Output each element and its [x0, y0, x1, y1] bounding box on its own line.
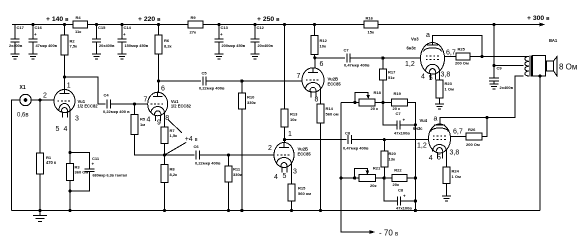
svg-text:R18: R18 — [374, 90, 382, 95]
resistor R24 1 Ом — [443, 167, 461, 196]
svg-text:C14: C14 — [124, 25, 132, 30]
wire R22 right to ground line — [407, 177, 415, 179]
svg-text:5: 5 — [437, 155, 441, 162]
svg-text:1 Ом: 1 Ом — [452, 174, 461, 179]
svg-text:1/2 ECC82: 1/2 ECC82 — [171, 104, 192, 109]
wire R26 to anode wire — [482, 118, 487, 137]
wire V2b cathode to R15 — [291, 164, 293, 185]
wire R18 to R19 — [375, 101, 392, 103]
capacitor C6 0,22мкр 400в — [194, 144, 221, 166]
svg-text:20 к: 20 к — [371, 106, 379, 111]
tube V1a Vu1 1/2 ECC82 — [54, 90, 98, 118]
svg-text:a: a — [426, 32, 430, 39]
wire V1a anode to node — [64, 77, 66, 89]
svg-text:R13: R13 — [290, 112, 298, 117]
svg-text:680мкр 6,3в тантал: 680мкр 6,3в тантал — [93, 174, 128, 178]
wire C6 to V2b grid — [200, 154, 275, 156]
svg-text:3: 3 — [75, 116, 79, 123]
svg-text:R11: R11 — [233, 167, 241, 172]
tube V2a Vu2В ЕСС85 — [302, 68, 341, 98]
node secondary bottom — [538, 74, 541, 77]
svg-text:R8: R8 — [170, 167, 176, 172]
svg-text:R17: R17 — [388, 70, 396, 75]
svg-text:C11: C11 — [92, 156, 100, 161]
capacitor C17 2х400в — [9, 25, 25, 60]
svg-text:5: 5 — [429, 75, 433, 82]
svg-text:+4 в: +4 в — [185, 136, 198, 143]
node R18 wiper tap — [353, 101, 356, 104]
resistor R8 8,2к — [161, 155, 177, 211]
svg-text:C6: C6 — [194, 144, 200, 149]
wire anode to tube top — [284, 140, 286, 142]
svg-text:+ 140 в: + 140 в — [46, 16, 69, 23]
tube V3 Vu3 6н3с — [407, 37, 445, 80]
svg-text:+: + — [34, 32, 37, 37]
node splitter cathode — [163, 153, 166, 156]
potentiometer R18 20 к — [355, 90, 382, 111]
svg-text:1м: 1м — [140, 122, 145, 127]
wire C7 to V3 grid — [350, 57, 421, 59]
wire cathode out to C6 — [165, 154, 195, 156]
wire anode junction to transformer — [482, 55, 528, 57]
wire V4 cathode — [446, 151, 448, 167]
resistor R3 360 Ом — [67, 153, 89, 211]
svg-text:330к: 330к — [233, 172, 242, 177]
resistor R10 330к — [238, 81, 255, 211]
svg-text:R5: R5 — [140, 117, 146, 122]
wire bottom ground bus — [11, 210, 540, 212]
tube V1b Vu1 1/2 ECC82 — [148, 92, 192, 121]
wire secondary to bus — [539, 76, 541, 211]
capacitor C7 0,47мкр 400в — [344, 48, 370, 68]
ground symbol on bus — [33, 211, 47, 222]
node ground line C7 — [414, 123, 417, 126]
node V2a anode — [313, 56, 316, 59]
svg-text:13к: 13к — [389, 157, 395, 162]
tube V2b Vu2Б ЕСС85 — [274, 143, 311, 173]
svg-text:560 ом: 560 ом — [298, 191, 311, 196]
svg-text:X1: X1 — [20, 85, 26, 91]
svg-text:C7: C7 — [396, 111, 402, 116]
wire V4 screen to R26 — [451, 136, 467, 138]
speaker ВА1 8 Ом — [547, 38, 578, 76]
svg-text:R12: R12 — [320, 38, 328, 43]
node bias lower tap — [339, 176, 342, 179]
svg-text:C5: C5 — [202, 71, 208, 76]
resistor R1 470 к — [37, 100, 57, 211]
transformer core — [530, 56, 532, 77]
svg-text:51к: 51к — [388, 75, 394, 80]
wire V3 top cap anode — [433, 36, 483, 57]
svg-text:R24: R24 — [452, 169, 460, 174]
wire -70в bias feed — [341, 102, 371, 232]
svg-text:8: 8 — [165, 115, 169, 122]
svg-text:+: + — [123, 32, 126, 37]
wire R25 to anode junction — [470, 55, 482, 57]
svg-text:7: 7 — [144, 97, 148, 104]
svg-text:Vu3: Vu3 — [411, 37, 419, 42]
wire X1 shield to bus — [11, 100, 19, 211]
resistor R5 1м grid leak — [131, 104, 165, 155]
svg-text:5: 5 — [283, 173, 287, 180]
svg-text:0,22мкр 400в: 0,22мкр 400в — [195, 161, 221, 166]
resistor R26 200 Ом — [466, 127, 482, 147]
svg-text:R19: R19 — [394, 91, 402, 96]
capacitor C12 20х400в — [251, 25, 274, 60]
resistor R9 27к — [188, 15, 203, 35]
svg-text:15к: 15к — [368, 30, 374, 35]
wire C5 to V2a grid — [206, 80, 302, 82]
svg-text:a: a — [434, 116, 438, 123]
resistor R22 20к — [392, 168, 407, 187]
svg-text:R22: R22 — [394, 168, 402, 173]
resistor R20 13к — [381, 140, 397, 178]
node V1b grid — [133, 102, 136, 105]
svg-text:470 к: 470 к — [46, 160, 57, 165]
svg-text:+ 220 в: + 220 в — [138, 16, 161, 23]
svg-text:R14: R14 — [326, 106, 334, 111]
svg-text:R9: R9 — [191, 15, 197, 20]
node V1a anode — [63, 75, 66, 78]
wire +250 rail drop — [284, 25, 286, 110]
svg-text:20к: 20к — [393, 182, 399, 187]
svg-text:C4: C4 — [104, 93, 110, 98]
wire C4 to V1b grid — [111, 103, 148, 105]
svg-text:C16: C16 — [35, 25, 43, 30]
svg-text:330к: 330к — [247, 100, 256, 105]
resistor R25 200 Ом — [455, 47, 470, 66]
svg-text:2х400в: 2х400в — [9, 43, 23, 48]
wire lower bias chain — [341, 177, 359, 179]
svg-text:11к: 11к — [75, 29, 81, 34]
svg-text:3,8: 3,8 — [441, 72, 451, 79]
resistor R4 11к — [73, 15, 88, 34]
svg-text:6,7: 6,7 — [453, 129, 463, 136]
resistor R16 15к — [364, 16, 378, 35]
svg-text:+ 250 в: + 250 в — [257, 16, 280, 23]
wire V2a anode out — [315, 57, 345, 59]
svg-text:20х400в: 20х400в — [258, 43, 274, 48]
capacitor C8 electrolytic 47х100в — [384, 178, 415, 211]
tube V4 Vu4 6н3с — [413, 118, 451, 159]
svg-text:ЕСС85: ЕСС85 — [298, 152, 312, 157]
svg-text:ВА1: ВА1 — [549, 38, 558, 43]
wire +300 drop to center tap — [494, 25, 524, 66]
potentiometer R21 20к — [355, 165, 381, 188]
transformer secondary — [533, 56, 546, 76]
node R11 top — [227, 153, 230, 156]
svg-text:3,8: 3,8 — [450, 150, 460, 157]
svg-text:6: 6 — [161, 86, 165, 93]
svg-text:1/2 ECC82: 1/2 ECC82 — [78, 104, 99, 109]
capacitor C7 electrolytic 47х100в — [383, 102, 415, 135]
wire V2b anode out — [285, 139, 347, 141]
svg-text:47х100в: 47х100в — [394, 130, 410, 135]
svg-text:1,5к: 1,5к — [170, 133, 178, 138]
wire V1b cathode — [164, 113, 166, 127]
capacitor C16 47мкр 400в — [29, 25, 58, 60]
svg-text:8,2к: 8,2к — [164, 44, 172, 49]
capacitor C4 0,22мкр 400 в — [103, 93, 130, 114]
svg-text:2: 2 — [268, 145, 272, 152]
svg-text:R26: R26 — [468, 127, 476, 132]
svg-text:R15: R15 — [298, 186, 306, 191]
node grid V1a / R1 — [38, 98, 41, 101]
svg-text:4: 4 — [64, 126, 68, 133]
capacitor C14 150мкр 450в — [118, 25, 149, 60]
svg-text:C7: C7 — [344, 48, 350, 53]
svg-text:20х400в: 20х400в — [99, 43, 115, 48]
svg-text:C15: C15 — [98, 25, 106, 30]
wire upper bias chain — [341, 101, 359, 103]
svg-text:R10: R10 — [247, 95, 255, 100]
resistor R23 1 Ом — [436, 80, 454, 104]
wire V2a cathode to R14 — [320, 89, 322, 105]
svg-text:0,47мкр 400в: 0,47мкр 400в — [343, 145, 369, 150]
svg-text:10к: 10к — [290, 117, 296, 122]
svg-text:0,22мкр 400в: 0,22мкр 400в — [199, 86, 225, 91]
svg-text:R16: R16 — [366, 16, 374, 21]
svg-text:5: 5 — [56, 126, 60, 133]
svg-text:7,5к: 7,5к — [70, 44, 78, 49]
resistor R12 10к anode load V2a — [311, 25, 328, 58]
svg-text:Vu4: Vu4 — [420, 118, 428, 123]
svg-text:R20: R20 — [389, 151, 397, 156]
svg-text:+: + — [220, 32, 223, 37]
svg-text:R21: R21 — [373, 165, 381, 170]
node R21 wiper tap — [353, 176, 356, 179]
svg-text:6,7: 6,7 — [446, 50, 456, 57]
connector X1 input — [17, 85, 31, 119]
resistor R11 330к — [225, 155, 242, 211]
resistor R14 560 ом — [317, 104, 339, 211]
wire anode to tube — [158, 81, 160, 92]
svg-text:1 Ом: 1 Ом — [445, 87, 454, 92]
node bus junctions — [38, 209, 417, 212]
node R3 bottom — [68, 189, 71, 192]
svg-text:R25: R25 — [458, 47, 466, 52]
svg-text:8: 8 — [315, 97, 319, 104]
svg-text:C8: C8 — [398, 188, 404, 193]
svg-text:+: + — [92, 162, 95, 167]
svg-text:C9: C9 — [497, 66, 503, 71]
svg-text:560 ом: 560 ом — [326, 112, 339, 117]
svg-text:1: 1 — [67, 83, 71, 90]
capacitor C15 20х400в — [92, 25, 115, 60]
node chain mid lower — [383, 176, 386, 179]
svg-text:4: 4 — [421, 73, 425, 80]
wire R19 right to ground line — [407, 102, 415, 124]
node rail junctions — [31, 23, 495, 26]
capacitor C11 680мкр 6,3в — [70, 153, 128, 191]
svg-text:4: 4 — [147, 116, 151, 123]
node ground line C8 — [414, 199, 417, 202]
wire anode to tube top — [314, 58, 316, 68]
node cathode R3 C11 — [68, 151, 71, 154]
arrow +300в supply — [540, 23, 546, 27]
node V3 grid / R17 — [381, 56, 384, 59]
resistor R19 20 к — [392, 91, 408, 111]
node V2b anode — [283, 138, 286, 141]
resistor R13 10к anode load V2b — [281, 109, 298, 140]
wire ground line — [414, 102, 416, 210]
svg-text:47х100в: 47х100в — [396, 206, 412, 211]
svg-text:1,2: 1,2 — [417, 143, 427, 150]
ground under R24 — [442, 195, 451, 197]
node V3 anode junction — [480, 55, 483, 58]
capacitor C9 2х400в — [489, 66, 514, 91]
svg-text:8 Ом: 8 Ом — [559, 63, 577, 72]
wire C8 to V4 grid — [352, 139, 429, 141]
svg-text:4: 4 — [274, 174, 278, 181]
svg-text:2х400в: 2х400в — [500, 85, 514, 90]
svg-text:20к: 20к — [370, 183, 376, 188]
svg-text:6: 6 — [320, 61, 324, 68]
svg-text:1,2: 1,2 — [405, 61, 415, 68]
svg-text:C17: C17 — [17, 25, 25, 30]
svg-text:200 Ом: 200 Ом — [466, 142, 480, 147]
svg-text:0,47мкр 400в: 0,47мкр 400в — [344, 63, 370, 68]
label +4 в with leaders — [165, 120, 198, 156]
svg-text:6н3с: 6н3с — [407, 46, 417, 51]
wire anode to C4 — [65, 77, 106, 104]
svg-text:C8: C8 — [345, 130, 351, 135]
node chain mid upper — [381, 101, 384, 104]
capacitor C5 0,22мкр 400в — [199, 71, 225, 91]
svg-text:C12: C12 — [257, 25, 265, 30]
wire V4 top cap anode — [440, 76, 524, 124]
node V4 grid / R20 — [383, 138, 386, 141]
wire R21 to R22 — [375, 177, 392, 179]
svg-text:0,6в: 0,6в — [17, 113, 29, 119]
resistor R7 1,5к — [161, 127, 177, 155]
svg-text:200 Ом: 200 Ом — [455, 61, 469, 66]
resistor R17 51к — [380, 58, 397, 102]
ground under C9 — [490, 83, 499, 85]
ground under R23 — [435, 103, 444, 105]
svg-text:ЕСС85: ЕСС85 — [328, 82, 342, 87]
svg-text:R4: R4 — [76, 15, 82, 20]
svg-text:150мкр 450в: 150мкр 450в — [125, 43, 149, 48]
node V1b anode — [157, 79, 160, 82]
wire top supply rail — [12, 24, 541, 26]
svg-text:2: 2 — [43, 93, 47, 100]
resistor R2 7,5к anode load — [61, 25, 77, 78]
svg-text:4: 4 — [429, 155, 433, 162]
node R26 to anode — [485, 116, 488, 119]
svg-text:C13: C13 — [221, 25, 229, 30]
wire V3 screen to R25 — [444, 55, 456, 57]
svg-text:47мкр 400в: 47мкр 400в — [36, 43, 58, 48]
svg-text:1: 1 — [288, 131, 292, 138]
wire V1a cathode — [69, 110, 71, 153]
capacitor C13 200мкр 450в — [215, 25, 246, 60]
svg-text:R6: R6 — [164, 38, 170, 43]
capacitor C8 0,47мкр 400в — [343, 130, 369, 150]
node ground line R22 — [414, 176, 417, 179]
wire anode out to C5 — [159, 80, 202, 82]
transformer T1 primary winding — [525, 56, 529, 76]
wire X1 to V1a grid — [31, 99, 54, 101]
svg-text:10к: 10к — [320, 44, 326, 49]
node center tap C9 — [492, 64, 495, 67]
svg-text:R23: R23 — [445, 81, 453, 86]
resistor R6 8,2к anode load — [155, 25, 172, 82]
svg-text:0,22мкр 400 в: 0,22мкр 400 в — [103, 109, 130, 114]
svg-text:7: 7 — [297, 73, 301, 80]
svg-text:8,2к: 8,2к — [170, 172, 178, 177]
svg-text:9: 9 — [157, 120, 161, 127]
resistor R15 560 ом — [288, 184, 311, 211]
svg-text:6н3с: 6н3с — [413, 126, 423, 131]
svg-text:+: + — [403, 118, 406, 123]
svg-text:+ 300 в: + 300 в — [527, 15, 550, 22]
svg-text:200мкр 450в: 200мкр 450в — [222, 43, 246, 48]
wire V3 cathode — [439, 71, 441, 80]
svg-text:3: 3 — [293, 169, 297, 176]
node R10 top — [240, 79, 243, 82]
svg-text:27к: 27к — [190, 30, 196, 35]
svg-text:+: + — [403, 194, 406, 199]
